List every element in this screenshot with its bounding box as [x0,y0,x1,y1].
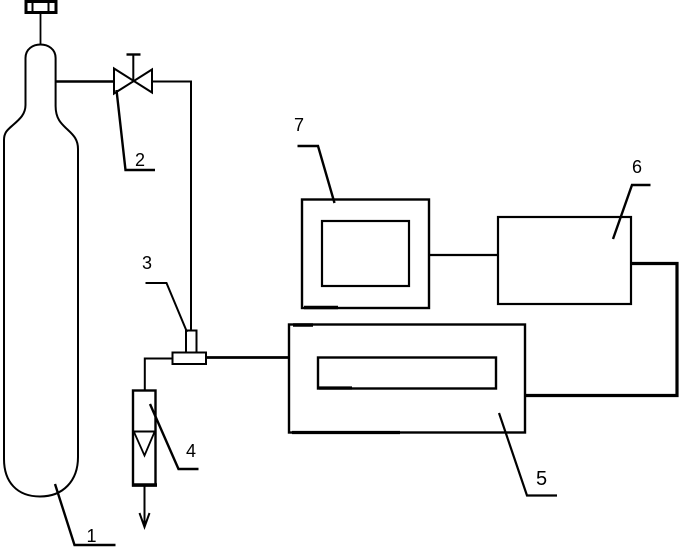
wire cap to cylinder [40,13,42,44]
box 5 [289,325,525,433]
svg-text:4: 4 [186,441,196,461]
svg-text:7: 7 [294,115,304,135]
label 7 leader [298,146,335,203]
label 1 leader [55,484,116,545]
gas cylinder 1 body [4,45,78,497]
wire monitor 7 to box 6 [429,254,498,256]
svg-text:1: 1 [87,526,97,546]
wire sensor to flowmeter [145,359,173,391]
label 4 leader [150,404,199,469]
label 2 leader [117,90,156,170]
sensor 3 [173,331,207,365]
monitor 7 outer [302,200,429,309]
wire valve to down pipe [152,82,191,332]
svg-text:5: 5 [536,468,547,490]
svg-text:3: 3 [142,253,152,273]
flowmeter outlet arrow [140,486,150,527]
wire box 6 to box 5 [525,264,677,396]
box 6 [498,217,631,304]
valve 2 [114,55,152,94]
gas cylinder 1 cap [26,2,56,13]
wire sensor to box 5 [206,356,289,359]
label 3 leader [146,283,188,332]
label 6 leader [613,185,651,239]
wire cylinder to valve 2 [56,80,114,82]
svg-text:6: 6 [632,157,642,177]
monitor 7 screen [322,221,409,286]
box 5 slot [318,358,496,389]
label 5 leader [499,413,557,496]
svg-text:2: 2 [135,150,145,170]
flowmeter 4 [132,391,157,486]
